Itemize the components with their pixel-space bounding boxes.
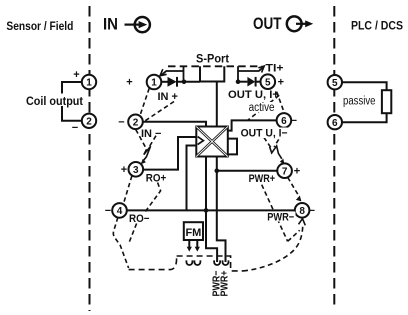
wire passive load loop: [342, 82, 387, 122]
svg-text:OUT U, I+: OUT U, I+: [228, 89, 279, 101]
wire dashed PWR+ to vertex: [262, 185, 288, 242]
node arrowhead to terminal 1: [160, 69, 167, 76]
wire isolator right stub loop: [228, 139, 237, 155]
wire power bus right: [217, 157, 226, 263]
wire terminal 4 to terminal 8 rail: [127, 209, 295, 211]
terminal input 3: [129, 162, 144, 177]
wire terminal 2 to isolator top: [143, 122, 206, 127]
wire dashed 6 to fold: [264, 137, 272, 148]
svg-text:1: 1: [86, 78, 92, 89]
wire terminal 1 to diode: [161, 81, 167, 83]
svg-text:TI+: TI+: [266, 63, 284, 75]
FM arrow right: [195, 240, 200, 252]
junction dot PWR+: [215, 168, 220, 173]
wire dashed 4 to rail: [113, 217, 128, 268]
terminal field 1: [82, 75, 96, 89]
socket FM right: [194, 260, 200, 265]
wire dashed bottom rail: [129, 256, 177, 270]
svg-text:S-Port: S-Port: [196, 52, 229, 66]
node Coil output label: [24, 94, 85, 109]
wire dashed 3 to 4: [124, 176, 132, 204]
svg-text:PWR+: PWR+: [219, 271, 231, 297]
svg-text:+: +: [126, 77, 132, 89]
wire dashed jumper 1-2: [140, 88, 149, 114]
wire S-Port bracket: [200, 66, 224, 81]
svg-text:PWR+: PWR+: [249, 173, 276, 185]
svg-text:4: 4: [117, 206, 123, 217]
svg-text:−: −: [72, 122, 78, 134]
terminal field 2: [82, 114, 96, 128]
wire diode D2 to terminal 5: [256, 81, 261, 83]
wire dashed curve to terminal 8: [243, 225, 303, 271]
wire coil output bracket: [62, 82, 82, 121]
wire diode D1 to S-Port bracket: [177, 81, 200, 83]
junction dot input: [182, 80, 187, 85]
wire dashed 7 to 8: [288, 177, 299, 195]
svg-text:−: −: [105, 205, 111, 217]
OUT direction icon: [287, 16, 313, 31]
diode D1: [168, 77, 178, 87]
terminal input 1: [147, 75, 162, 90]
svg-text:−: −: [118, 116, 124, 128]
svg-text:Coil output: Coil output: [26, 94, 83, 108]
svg-text:IN: IN: [103, 16, 118, 34]
FM box: [184, 222, 203, 240]
wire dashed IN+ to 2: [143, 102, 174, 123]
socket FM left: [186, 260, 192, 265]
wire dashed IN- to fold: [148, 136, 156, 149]
node arrowhead into 8: [296, 196, 302, 202]
svg-text:2: 2: [86, 116, 92, 127]
node RO- label: [128, 213, 151, 225]
node PWR- label: [266, 212, 296, 224]
FM arrow left: [187, 240, 192, 252]
terminal output 5: [261, 74, 276, 89]
svg-text:6: 6: [332, 118, 338, 129]
node arrowhead to TI+: [258, 66, 264, 73]
svg-text:IN +: IN +: [158, 91, 178, 103]
node OUT U I- label: [240, 128, 288, 140]
junction dot PWR-: [204, 208, 209, 213]
terminal input 2: [128, 115, 143, 130]
svg-text:active: active: [249, 102, 275, 114]
node open arrowhead under 8: [299, 219, 306, 226]
wire junction to diode D2: [238, 81, 247, 83]
svg-text:FM: FM: [185, 227, 201, 239]
wire dashed upper rail: [177, 256, 243, 271]
diode D2: [247, 77, 255, 87]
svg-text:RO−: RO−: [129, 213, 150, 225]
wire S-Port tap to TI+: [238, 66, 263, 81]
wire S-Port dashed bus: [168, 65, 262, 67]
svg-text:6: 6: [281, 116, 287, 127]
node arrowhead into 7: [280, 159, 285, 165]
svg-text:5: 5: [265, 77, 271, 88]
junction dot OUT: [236, 79, 241, 84]
svg-text:+: +: [73, 69, 79, 81]
svg-text:Sensor / Field: Sensor / Field: [6, 19, 73, 33]
svg-text:−: −: [291, 115, 297, 127]
wire dashed vertex to 8: [288, 230, 300, 241]
svg-text:OUT: OUT: [253, 15, 282, 33]
svg-text:3: 3: [133, 165, 139, 176]
terminal output 8: [295, 203, 310, 218]
wire to terminal 7: [217, 170, 277, 172]
svg-text:RO+: RO+: [146, 173, 167, 185]
svg-text:OUT U, I−: OUT U, I−: [241, 128, 288, 140]
wire fold squiggle left: [143, 146, 150, 161]
svg-text:8: 8: [299, 206, 305, 217]
svg-text:2: 2: [133, 117, 139, 128]
wire S-Port drop to isolator: [216, 82, 218, 127]
wire RO- riser to isolator left: [187, 146, 197, 211]
wire dashed 2 to fold: [136, 130, 147, 150]
svg-text:1: 1: [151, 78, 157, 89]
svg-text:5: 5: [332, 78, 338, 89]
svg-text:IN −: IN −: [141, 128, 161, 140]
wire fold squiggle right: [270, 146, 282, 159]
wire dashed OUT- to fold: [274, 139, 279, 147]
terminal input 4: [112, 203, 127, 218]
isolator U1: [196, 127, 228, 157]
svg-text:PLC / DCS: PLC / DCS: [351, 19, 403, 33]
terminal output 6: [277, 113, 292, 128]
wire terminal 3 to isolator left: [143, 137, 196, 170]
wire dashed 5 to 6: [277, 92, 285, 113]
svg-text:PWR−: PWR−: [267, 212, 294, 224]
terminal PLC 6: [328, 115, 342, 129]
socket PWR+: [223, 260, 229, 265]
node arrowhead into 3: [141, 159, 146, 165]
terminal PLC 5: [328, 75, 342, 89]
svg-text:passive: passive: [343, 96, 376, 108]
wire power bus left: [206, 157, 217, 263]
svg-text:+: +: [278, 76, 284, 88]
wire isolator to terminal 6: [228, 120, 277, 130]
IN direction icon: [125, 17, 150, 32]
wire dashed OUT+ to wire: [248, 95, 279, 120]
node active label: [247, 102, 276, 114]
resistor passive load: [382, 90, 391, 113]
svg-text:−: −: [309, 205, 315, 217]
socket PWR-: [214, 260, 220, 265]
wire left dashed field boundary: [89, 6, 91, 311]
wire dashed RO+ fold to rail: [128, 183, 160, 245]
wire S-Port tap to input terminal 1: [162, 66, 184, 80]
wire right dashed PLC boundary: [333, 6, 335, 309]
svg-text:+: +: [121, 164, 127, 176]
terminal output 7: [277, 163, 292, 178]
svg-text:7: 7: [282, 166, 288, 177]
svg-text:+: +: [294, 165, 300, 177]
